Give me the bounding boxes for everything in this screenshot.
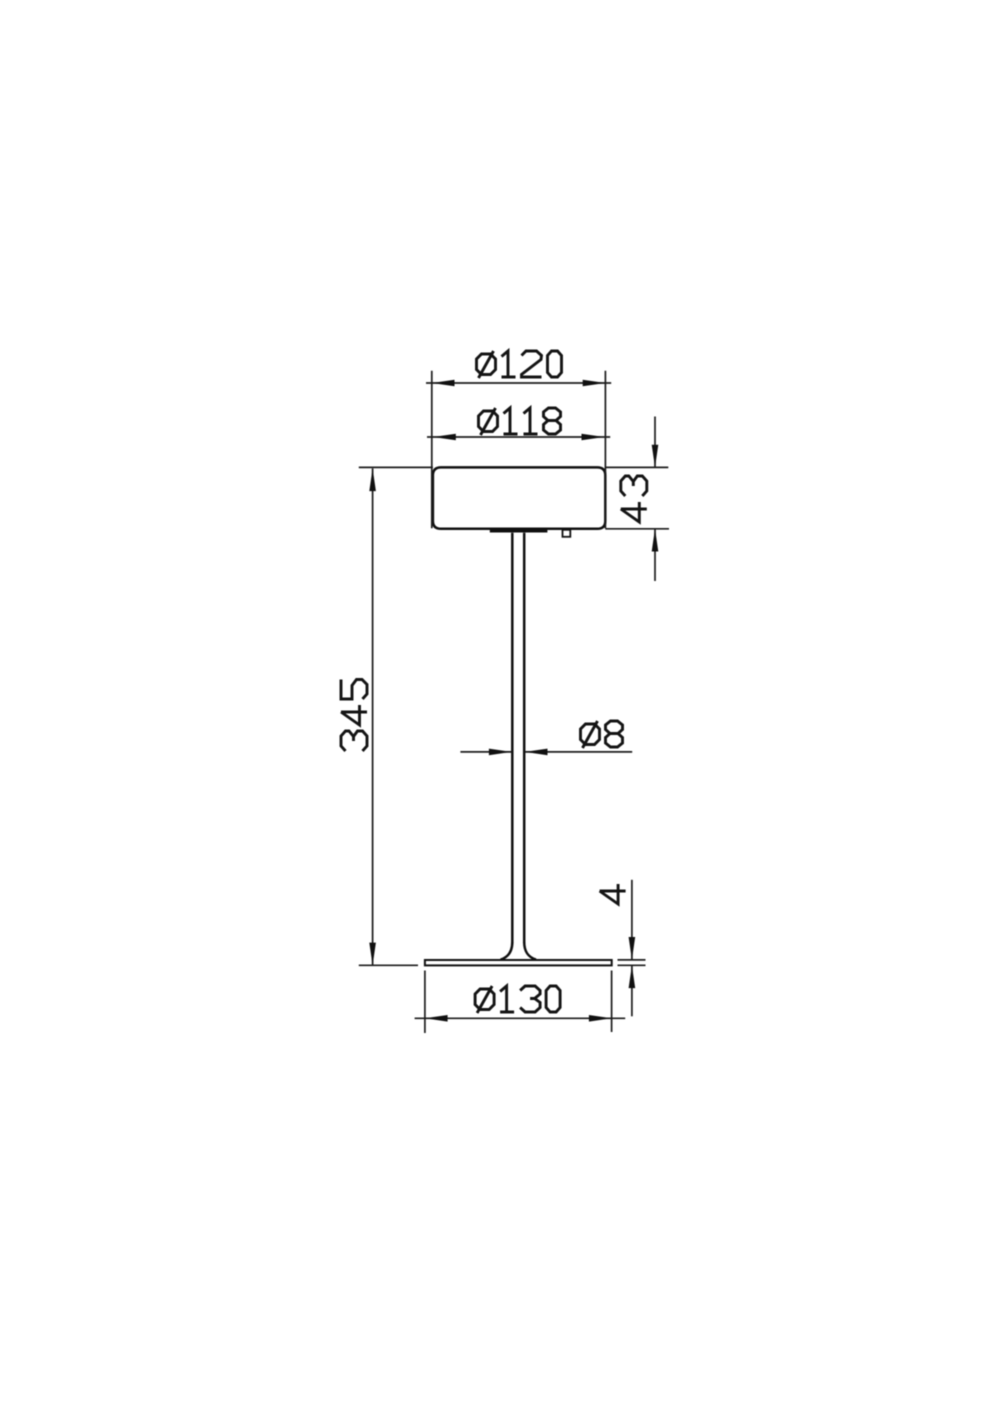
text dia120 [477, 351, 562, 378]
dia118 dimension line [427, 436, 610, 438]
text 43 (rotated) [621, 476, 647, 522]
dia8 dimension lines [460, 751, 511, 753]
4 dimension line (above and below) [631, 880, 633, 960]
4 bottom arrow (points up) [629, 965, 636, 988]
text 4 (rotated) [600, 884, 626, 904]
dia118 right arrow [582, 434, 605, 441]
43 bottom arrow (points up) [652, 529, 659, 552]
stem right edge [523, 533, 526, 944]
dia130 extension lines [424, 971, 426, 1034]
stem left edge [511, 533, 514, 944]
dia130 left arrow [425, 1015, 448, 1022]
lamp head (shade), rounded rect [433, 467, 605, 528]
base plate [425, 960, 612, 965]
extension lines dia120 / dia118 [431, 371, 433, 528]
head-top line extensions (345 top tick / 43 top extension) [359, 466, 433, 468]
head-bottom extension right (43 bottom) [605, 528, 669, 530]
345 top arrow (points up) [369, 468, 376, 491]
stem flare left [501, 942, 513, 960]
head bottom recess bar [490, 530, 548, 533]
text dia130 [475, 986, 560, 1013]
345 dimension line [372, 468, 374, 965]
text dia118 [479, 408, 561, 435]
text dia8 [581, 721, 623, 748]
dia120 left arrow [432, 380, 455, 387]
dia120 right arrow [583, 380, 606, 387]
dia130 dimension line [415, 1017, 626, 1019]
dia118 left arrow [433, 434, 456, 441]
345 bottom arrow (points down) [369, 943, 376, 966]
dia8 left arrow (points right) [489, 749, 512, 756]
43 dimension line (above and below) [654, 417, 656, 468]
text 345 (rotated) [341, 680, 367, 752]
switch button under head [563, 530, 571, 537]
345 bottom tick [359, 964, 418, 966]
4 extension lines [618, 959, 646, 961]
4 top arrow (points down) [629, 937, 636, 960]
43 top arrow (points down) [652, 445, 659, 468]
arrowheads [369, 380, 658, 1022]
stem flare right [524, 942, 536, 960]
dia8 right arrow (points left) [525, 749, 548, 756]
dia130 right arrow [589, 1015, 612, 1022]
dia120 dimension line [426, 382, 611, 384]
